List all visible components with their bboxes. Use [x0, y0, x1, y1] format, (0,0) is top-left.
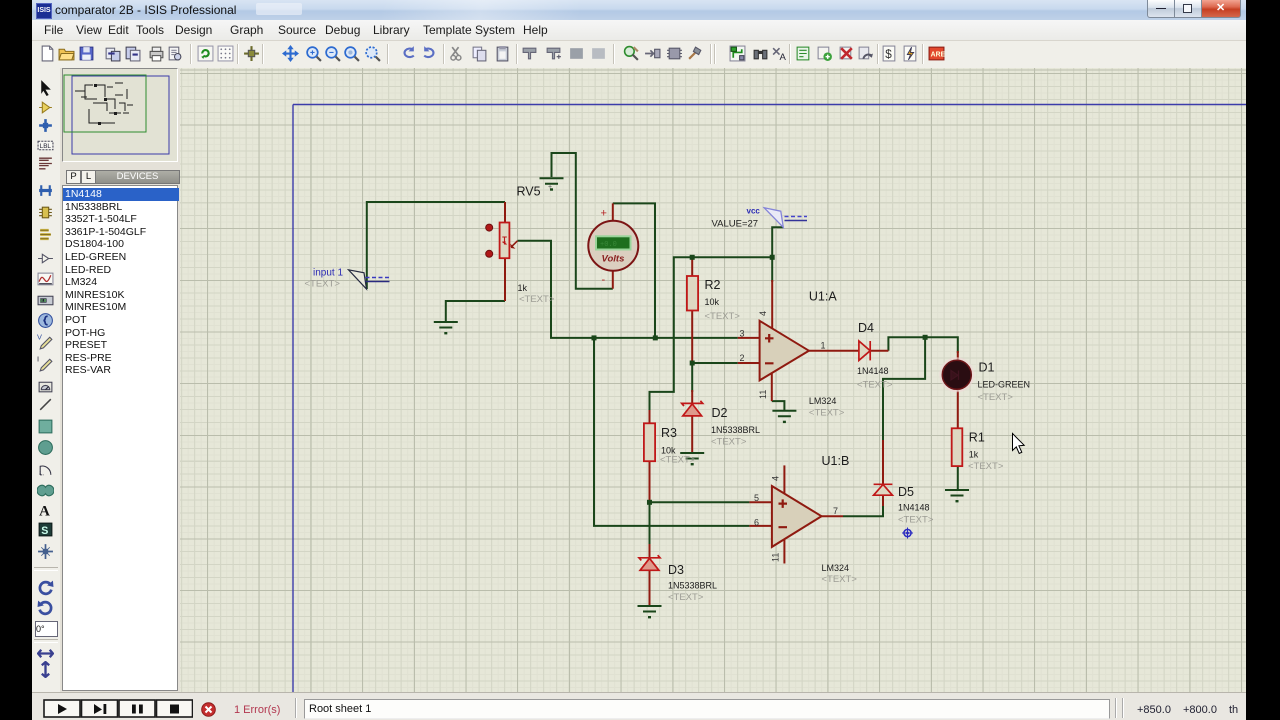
- pin RV5 top: [504, 202, 506, 223]
- origin marker: [902, 528, 913, 539]
- wire bus to pin6: [594, 338, 749, 526]
- diode D5: [874, 484, 893, 495]
- svg-text:6: 6: [754, 518, 759, 528]
- svg-text:+0.0: +0.0: [600, 241, 617, 249]
- svg-text:11: 11: [771, 553, 781, 562]
- svg-text:4: 4: [771, 476, 781, 481]
- wire R2 node down to D2: [691, 363, 693, 392]
- ground below D2: [680, 453, 704, 465]
- status: [32, 692, 1246, 720]
- svg-text:D5: D5: [898, 485, 914, 499]
- menu bar: [32, 20, 1246, 41]
- svg-text:RV5: RV5: [517, 185, 541, 199]
- svg-text:LM324: LM324: [822, 563, 850, 573]
- pin U1:A out (1) and D4 anode: [809, 350, 859, 352]
- svg-text:Volts: Volts: [602, 254, 625, 265]
- ground U1:A pin11: [772, 411, 796, 423]
- wire voltmeter minus to ground loop: [552, 153, 613, 289]
- junction bus to voltmeter branch: [653, 335, 658, 340]
- pin RV5 bottom: [504, 258, 506, 301]
- pin R3 bottom: [649, 461, 651, 502]
- svg-text:<TEXT>: <TEXT>: [668, 592, 704, 603]
- LED D1: [939, 357, 974, 392]
- pin U1:A vminus (11): [771, 373, 773, 401]
- svg-text:11: 11: [758, 390, 768, 399]
- resistor R1: [952, 428, 963, 466]
- potentiometer RV5: [486, 223, 518, 259]
- wire R3 junction down to D3: [649, 502, 651, 546]
- wire RV5 bottom to ground: [446, 301, 505, 322]
- ground below D3: [638, 606, 662, 618]
- pin U1:A in- (2): [738, 362, 760, 364]
- svg-text:<TEXT>: <TEXT>: [898, 515, 934, 526]
- svg-text:2: 2: [740, 353, 745, 363]
- svg-text:-: -: [602, 274, 606, 286]
- junction R3 to pin5 and D3: [647, 500, 652, 505]
- svg-text:<TEXT>: <TEXT>: [305, 279, 341, 290]
- mouse cursor: [1013, 434, 1025, 454]
- svg-text:ARES: ARES: [931, 52, 945, 59]
- svg-text:input 1: input 1: [313, 268, 343, 279]
- pin U1:B in- (6): [749, 525, 772, 527]
- svg-text:I: I: [37, 355, 39, 363]
- pin R3 top: [649, 410, 651, 423]
- svg-text:1N4148: 1N4148: [898, 503, 930, 513]
- svg-text:R3: R3: [661, 426, 677, 440]
- svg-text:LM324: LM324: [809, 396, 837, 406]
- ground below RV5: [434, 322, 458, 334]
- svg-text:<TEXT>: <TEXT>: [519, 294, 555, 305]
- wire voltmeter plus: [613, 203, 655, 338]
- pin R2 top: [691, 257, 693, 276]
- svg-text:A: A: [39, 503, 50, 518]
- svg-text:R2: R2: [705, 278, 721, 292]
- wire pin4 U1:A: [771, 257, 773, 282]
- sheet border: [293, 105, 1246, 693]
- svg-text:1: 1: [821, 341, 826, 351]
- junction vcc to pin4: [770, 255, 775, 260]
- diode D4: [859, 341, 870, 360]
- ground below R1: [945, 490, 969, 502]
- svg-text:LBL: LBL: [40, 143, 52, 150]
- wire input1 to RV5 top: [367, 202, 505, 289]
- svg-text:+: +: [601, 208, 607, 220]
- zener diode D3: [639, 555, 660, 570]
- svg-text:U1:B: U1:B: [822, 454, 850, 468]
- sidebar: [60, 68, 180, 692]
- pin U1:B vplus stub (4): [783, 465, 785, 494]
- svg-text:3: 3: [740, 329, 745, 339]
- wire U1:A pin11 to ground: [772, 401, 785, 410]
- svg-text:U1:A: U1:A: [809, 290, 837, 304]
- pin R2 bottom: [691, 311, 693, 364]
- svg-text:D1: D1: [979, 361, 995, 375]
- pin U1:A in+ (3): [738, 337, 760, 339]
- wire R3 junction to pin5: [650, 501, 750, 503]
- svg-text:$: $: [885, 48, 892, 61]
- svg-text:V: V: [37, 333, 42, 341]
- op-amp U1:B: [772, 486, 822, 547]
- resistor R2: [687, 276, 698, 311]
- wire branch to D5: [883, 337, 925, 442]
- svg-text:<TEXT>: <TEXT>: [857, 380, 893, 391]
- pin U1:A vplus (4): [771, 280, 773, 329]
- svg-text:5: 5: [754, 493, 759, 503]
- wire U1:B pin7 to D5: [843, 505, 883, 516]
- svg-text:7: 7: [833, 506, 838, 516]
- pin D2 anode-cathode stubs: [691, 390, 693, 452]
- junction D4 to D1 and D5: [923, 335, 928, 340]
- power terminal vcc: [764, 208, 807, 228]
- svg-text:10k: 10k: [705, 297, 720, 307]
- svg-text:D4: D4: [858, 321, 874, 335]
- svg-text:<TEXT>: <TEXT>: [978, 392, 1014, 403]
- svg-text:LED-GREEN: LED-GREEN: [978, 380, 1031, 390]
- toolbar: [32, 41, 1246, 69]
- svg-text:VALUE=27: VALUE=27: [712, 219, 759, 230]
- svg-text:+: +: [548, 184, 552, 191]
- pin U1:B out (7): [822, 515, 844, 517]
- pin D4 cathode: [870, 350, 888, 352]
- wire vcc terminal: [772, 227, 783, 257]
- pin D5 top and bottom: [882, 440, 884, 506]
- svg-text:<TEXT>: <TEXT>: [660, 455, 696, 466]
- wire R2 to pin2 node: [692, 362, 738, 364]
- ground voltmeter loop: [540, 178, 564, 190]
- svg-text:1k: 1k: [969, 450, 979, 460]
- wire D4 cathode up-right to D1: [888, 337, 957, 353]
- input terminal input1: [349, 270, 390, 289]
- wire RV5 wiper to bus: [518, 241, 738, 338]
- svg-text:<TEXT>: <TEXT>: [711, 437, 747, 448]
- svg-text:<TEXT>: <TEXT>: [809, 408, 845, 419]
- pin voltmeter minus: [612, 271, 614, 289]
- svg-text:1N5338BRL: 1N5338BRL: [711, 425, 760, 435]
- svg-text:1k: 1k: [518, 283, 528, 293]
- junction R2 bottom to pin2: [690, 361, 695, 366]
- svg-text:vcc: vcc: [747, 207, 761, 216]
- wire R1 bottom to ground: [957, 466, 959, 489]
- svg-text:<TEXT>: <TEXT>: [968, 461, 1004, 472]
- zener diode D2: [682, 401, 703, 416]
- canvas: [180, 68, 1246, 692]
- svg-text:A: A: [780, 52, 787, 62]
- wire vcc bus to R2 and corner: [650, 257, 773, 412]
- pin U1:B in+ (5): [749, 501, 772, 503]
- junction bus to pin6 branch: [592, 335, 597, 340]
- left tools: [32, 68, 61, 720]
- svg-text:<TEXT>: <TEXT>: [705, 311, 741, 322]
- resistor R3: [644, 423, 655, 461]
- op-amp U1:A: [760, 321, 809, 381]
- svg-text:4: 4: [758, 311, 768, 316]
- svg-text:D3: D3: [668, 563, 684, 577]
- svg-text:R1: R1: [969, 431, 985, 445]
- svg-text:D2: D2: [712, 406, 728, 420]
- pin U1:B vminus stub (11): [783, 539, 785, 564]
- pin D1 top and bottom: [957, 351, 959, 428]
- voltmeter: [588, 208, 638, 287]
- svg-text:1N4148: 1N4148: [857, 366, 889, 376]
- pin voltmeter plus: [612, 203, 614, 221]
- pin D3 stubs: [649, 544, 651, 605]
- title bar: [32, 0, 1246, 21]
- svg-text:<TEXT>: <TEXT>: [822, 574, 858, 585]
- svg-text:S: S: [41, 524, 48, 536]
- svg-text:1N5338BRL: 1N5338BRL: [668, 581, 717, 591]
- junction R2 top: [690, 255, 695, 260]
- svg-text:8.8: 8.8: [40, 298, 47, 303]
